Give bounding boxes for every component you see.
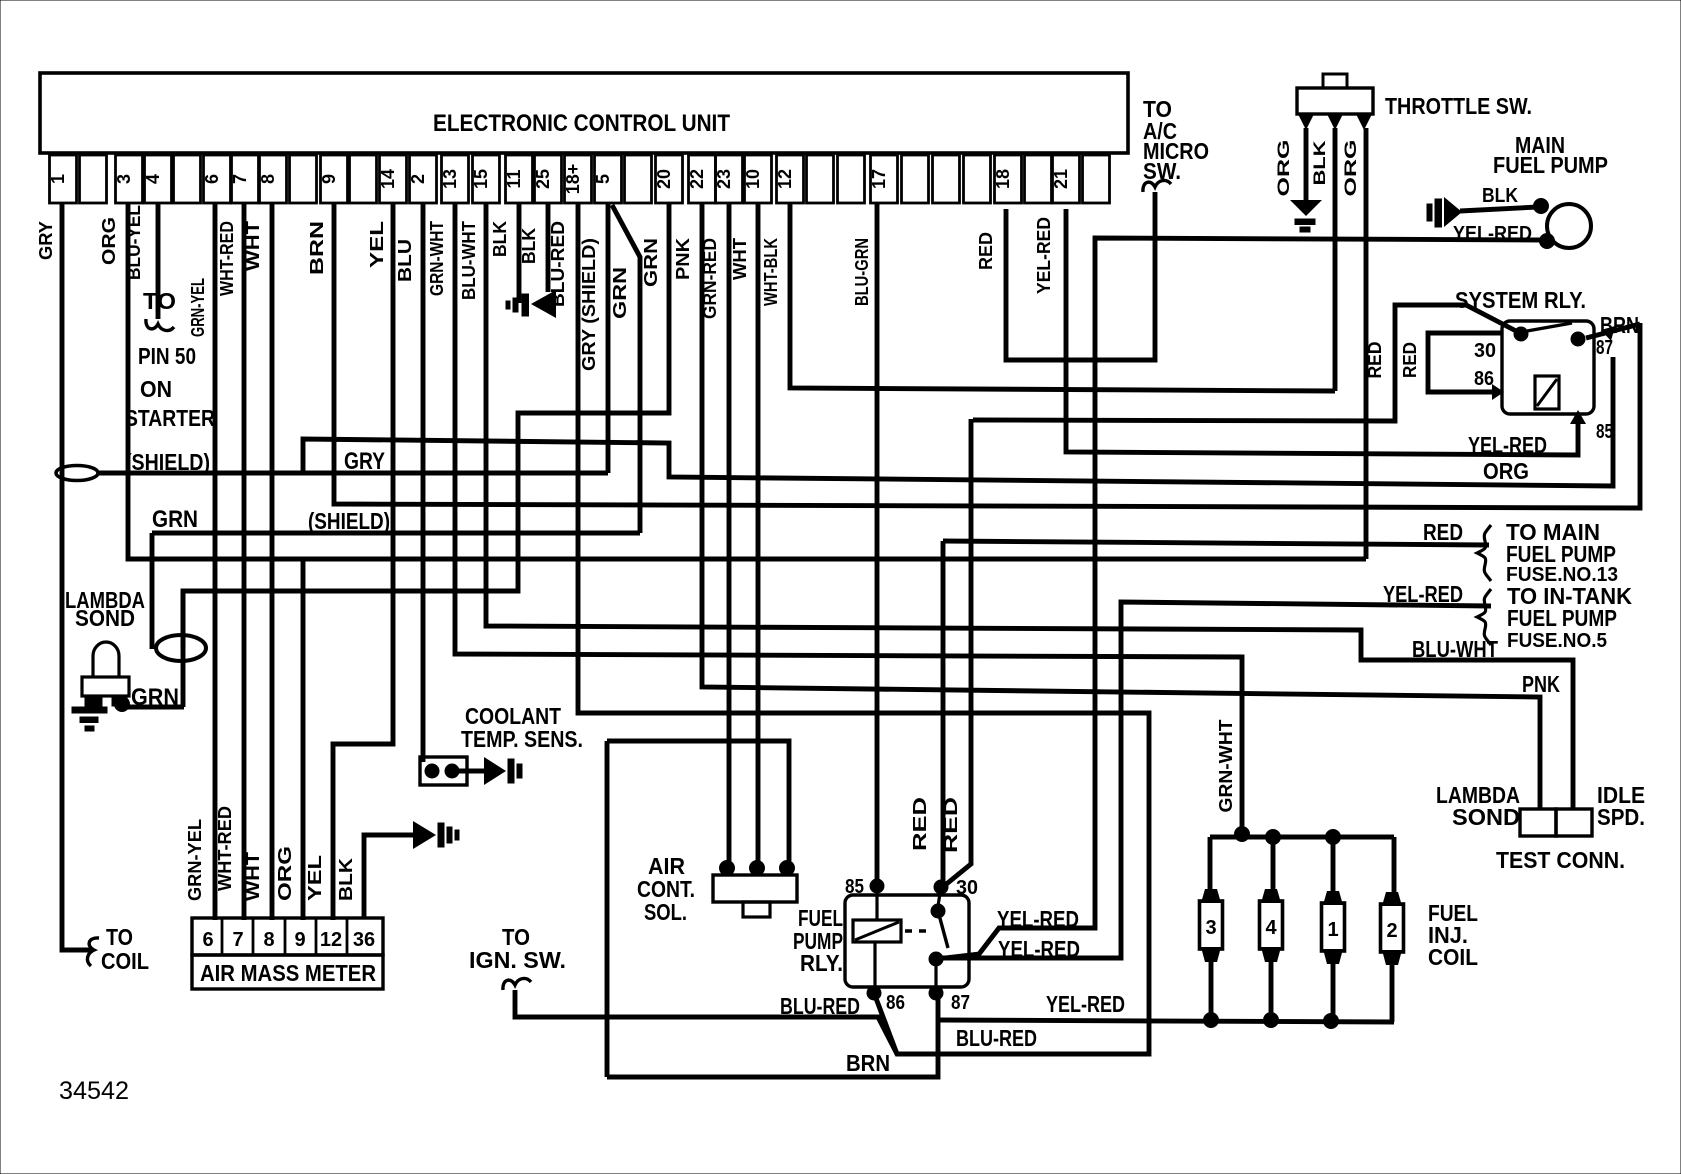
svg-text:9: 9 [294,929,305,951]
svg-text:2: 2 [408,174,428,184]
svg-text:IGN. SW.: IGN. SW. [469,947,566,973]
svg-text:8: 8 [258,174,278,184]
svg-text:STARTER: STARTER [125,405,215,431]
svg-text:BLK: BLK [1310,140,1329,186]
svg-text:87: 87 [1596,337,1613,359]
svg-text:GRN-YEL: GRN-YEL [184,819,205,901]
svg-text:22: 22 [687,169,707,189]
svg-text:85: 85 [1596,421,1613,443]
svg-text:ON: ON [140,376,172,402]
svg-text:SYSTEM RLY.: SYSTEM RLY. [1455,287,1586,313]
svg-text:PNK: PNK [672,237,693,280]
svg-text:7: 7 [232,929,243,951]
svg-text:COIL: COIL [1428,944,1478,970]
svg-text:BLK: BLK [489,220,510,257]
svg-text:WHT-RED: WHT-RED [214,806,235,891]
svg-text:7: 7 [230,174,250,184]
svg-text:BLU-GRN: BLU-GRN [851,238,872,306]
svg-text:GRN: GRN [609,267,630,319]
svg-text:RED: RED [975,232,996,270]
svg-text:ORG: ORG [274,846,295,901]
svg-text:YEL-RED: YEL-RED [1383,581,1463,607]
svg-text:25: 25 [533,169,553,189]
svg-text:RLY.: RLY. [800,950,843,976]
svg-text:TO: TO [106,924,133,950]
svg-text:WHT: WHT [242,851,263,901]
svg-text:BRN: BRN [1600,312,1639,338]
svg-text:BRN: BRN [306,221,327,275]
svg-text:BLU-RED: BLU-RED [956,1025,1037,1051]
svg-text:GRN: GRN [131,684,179,711]
svg-text:1: 1 [1327,919,1338,941]
svg-text:YEL-RED: YEL-RED [998,936,1080,962]
svg-text:8: 8 [263,929,274,951]
svg-text:12: 12 [775,169,795,189]
svg-text:ORG: ORG [98,217,119,265]
svg-text:GRN: GRN [152,506,198,533]
svg-text:ORG: ORG [1483,458,1529,484]
svg-text:YEL-RED: YEL-RED [1033,217,1054,294]
svg-text:BLU: BLU [394,239,415,282]
svg-text:RED: RED [940,797,961,853]
svg-text:14: 14 [378,169,398,189]
svg-text:RED: RED [909,797,930,851]
svg-text:GRN-YEL: GRN-YEL [187,278,208,337]
svg-text:36: 36 [353,929,375,951]
svg-text:85: 85 [845,876,864,898]
svg-text:9: 9 [319,174,339,184]
svg-text:BLU-RED: BLU-RED [780,993,860,1019]
svg-text:GRY: GRY [344,448,385,475]
svg-text:GRY: GRY [35,220,56,260]
svg-text:WHT: WHT [729,237,750,280]
svg-text:GRN-WHT: GRN-WHT [426,220,447,296]
svg-text:SOND: SOND [75,605,135,631]
svg-text:PNK: PNK [1522,671,1560,697]
svg-text:17: 17 [869,169,889,189]
svg-text:4: 4 [1265,917,1277,939]
svg-text:AIR MASS METER: AIR MASS METER [200,960,376,986]
svg-text:GRN-WHT: GRN-WHT [1215,719,1236,813]
svg-text:PIN 50: PIN 50 [138,343,196,369]
svg-text:BLK: BLK [1482,185,1518,207]
svg-text:YEL: YEL [366,221,387,268]
svg-text:23: 23 [714,169,734,189]
svg-text:COIL: COIL [101,948,149,974]
svg-text:GRY (SHIELD): GRY (SHIELD) [578,238,599,371]
svg-text:FUEL PUMP: FUEL PUMP [1507,605,1617,631]
svg-text:30: 30 [1474,340,1496,362]
svg-text:TEMP. SENS.: TEMP. SENS. [461,726,583,752]
svg-text:10: 10 [743,169,763,189]
svg-text:YEL-RED: YEL-RED [1046,991,1125,1017]
svg-text:BLU-WHT: BLU-WHT [1412,636,1498,662]
svg-text:11: 11 [504,169,524,188]
svg-text:34542: 34542 [59,1077,129,1105]
svg-text:YEL-RED: YEL-RED [1468,432,1547,458]
svg-text:WHT-RED: WHT-RED [216,221,237,296]
svg-text:6: 6 [202,929,213,951]
svg-text:(SHIELD): (SHIELD) [308,508,390,534]
svg-text:BLK: BLK [335,857,356,901]
svg-text:30: 30 [956,877,978,899]
svg-text:15: 15 [471,169,491,189]
svg-text:GRN: GRN [640,238,661,287]
svg-text:18: 18 [993,169,1013,189]
svg-text:THROTTLE SW.: THROTTLE SW. [1385,93,1532,119]
svg-text:TEST CONN.: TEST CONN. [1496,847,1625,873]
svg-text:13: 13 [440,169,460,189]
svg-text:SPD.: SPD. [1597,804,1645,830]
svg-text:YEL-RED: YEL-RED [1453,223,1532,245]
svg-text:6: 6 [202,174,222,184]
svg-text:21: 21 [1051,169,1071,189]
svg-text:3: 3 [114,174,134,184]
svg-text:SW.: SW. [1143,158,1181,184]
svg-text:WHT-BLK: WHT-BLK [760,238,781,306]
svg-text:YEL-RED: YEL-RED [997,906,1079,932]
svg-text:18+: 18+ [563,164,583,195]
svg-text:BLU-WHT: BLU-WHT [458,220,479,300]
svg-text:RED: RED [1423,519,1463,545]
svg-text:4: 4 [143,174,163,184]
svg-text:87: 87 [951,992,970,1014]
svg-text:2: 2 [1386,920,1397,942]
svg-text:ELECTRONIC CONTROL UNIT: ELECTRONIC CONTROL UNIT [433,110,730,137]
svg-text:5: 5 [593,174,613,184]
svg-text:YEL: YEL [304,855,325,901]
svg-text:RED: RED [1399,342,1420,378]
svg-text:1: 1 [48,174,68,184]
svg-text:SOL.: SOL. [644,899,687,925]
svg-text:BRN: BRN [846,1050,890,1076]
svg-text:3: 3 [1205,917,1216,939]
svg-text:12: 12 [320,929,342,951]
svg-text:SOND: SOND [1452,804,1520,830]
svg-text:ORG: ORG [1341,140,1360,197]
svg-text:FUEL PUMP: FUEL PUMP [1493,152,1608,178]
svg-text:TO: TO [143,288,176,314]
svg-text:86: 86 [1474,368,1494,390]
svg-text:86: 86 [886,992,905,1014]
svg-text:ORG: ORG [1274,140,1293,197]
svg-text:20: 20 [654,169,674,189]
svg-text:FUSE.NO.5: FUSE.NO.5 [1507,630,1607,652]
